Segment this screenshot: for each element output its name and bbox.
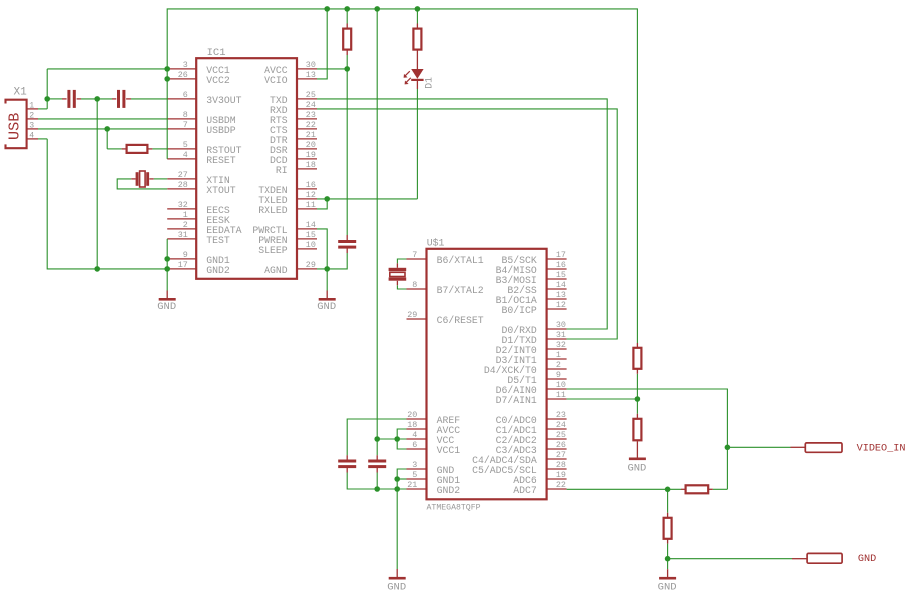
wire X1 pin1 stub link bbox=[38, 108, 47, 110]
svg-text:3: 3 bbox=[183, 60, 188, 70]
svg-text:31: 31 bbox=[178, 230, 188, 240]
wire GND net to pad bbox=[668, 558, 792, 560]
svg-text:3V3OUT: 3V3OUT bbox=[206, 95, 241, 106]
svg-text:9: 9 bbox=[183, 250, 188, 260]
wire TXLED row to LED column bbox=[317, 198, 417, 200]
capacitor C below IC1 (AGND decoupling) bbox=[338, 240, 356, 243]
wire VCC1 row bbox=[47, 68, 167, 70]
svg-text:19: 19 bbox=[556, 470, 566, 480]
svg-text:GND: GND bbox=[157, 301, 176, 313]
U$1 right pins with numbers and names bbox=[472, 250, 566, 496]
svg-text:11: 11 bbox=[556, 390, 566, 400]
wire VCC row bbox=[377, 438, 406, 440]
ground symbol right divider bbox=[629, 458, 646, 461]
svg-text:29: 29 bbox=[407, 310, 417, 320]
svg-text:B7/XTAL2: B7/XTAL2 bbox=[437, 285, 484, 296]
svg-text:ATMEGA8TQFP: ATMEGA8TQFP bbox=[427, 504, 481, 513]
svg-text:9: 9 bbox=[556, 370, 561, 380]
IC chip IC1 FT232 body bbox=[196, 58, 297, 279]
svg-text:1: 1 bbox=[183, 210, 188, 220]
ground symbol below IC1 left bbox=[159, 298, 176, 301]
wire TEST row down to ground bbox=[166, 239, 168, 291]
svg-text:B0/ICP: B0/ICP bbox=[502, 305, 537, 316]
LED D1 bbox=[404, 69, 424, 89]
svg-text:GND2: GND2 bbox=[206, 265, 230, 276]
svg-text:26: 26 bbox=[556, 440, 566, 450]
svg-text:20: 20 bbox=[306, 140, 316, 150]
wire RSTOUT row with series resistor bbox=[107, 148, 121, 150]
pad label GND bbox=[807, 553, 842, 563]
svg-text:23: 23 bbox=[556, 410, 566, 420]
svg-text:14: 14 bbox=[306, 220, 316, 230]
IC1 right pins with numbers and names bbox=[252, 60, 317, 276]
svg-text:IC1: IC1 bbox=[207, 47, 226, 59]
wire RXLED link to TXLED bbox=[317, 199, 327, 209]
wire USBDP row from X1 pin3 bbox=[38, 128, 167, 130]
svg-text:GND: GND bbox=[317, 301, 336, 313]
lead to ground below U$1 bbox=[396, 569, 398, 577]
svg-text:4: 4 bbox=[412, 430, 417, 440]
lead to bottom ground bbox=[667, 569, 669, 577]
wire top VCC rail from IC1 RESET column to right resistor column bbox=[167, 9, 637, 343]
wire vertical USBDP junction to RSTOUT row bbox=[106, 129, 108, 149]
ground symbol below IC1 right bbox=[319, 298, 336, 301]
svg-text:D7/AIN1: D7/AIN1 bbox=[496, 395, 537, 406]
svg-text:24: 24 bbox=[556, 420, 566, 430]
svg-text:U$1: U$1 bbox=[427, 237, 445, 248]
svg-text:25: 25 bbox=[556, 430, 566, 440]
wire vertical from 3V3OUT junction down to GND2 row bbox=[96, 99, 98, 269]
svg-text:RI: RI bbox=[276, 165, 288, 176]
junction divider tap bbox=[635, 396, 641, 402]
wire GND rows down to ground below U$1 bbox=[397, 469, 406, 569]
svg-text:1: 1 bbox=[556, 350, 561, 360]
capacitor C on AREF bbox=[338, 460, 356, 463]
resistor R lower column bbox=[664, 518, 672, 539]
svg-text:19: 19 bbox=[306, 150, 316, 160]
junction VIDEO_IN tap bbox=[725, 445, 731, 451]
resistor R (vertical) above LED bbox=[416, 24, 418, 29]
wire GND2 row bbox=[347, 488, 406, 490]
svg-text:20: 20 bbox=[407, 410, 417, 420]
svg-text:16: 16 bbox=[556, 260, 566, 270]
capacitor C (series) right on 3V3OUT line bbox=[117, 90, 120, 108]
svg-text:30: 30 bbox=[306, 60, 316, 70]
svg-text:GND: GND bbox=[387, 582, 406, 594]
wire X1 pin4 stub link bbox=[38, 138, 47, 140]
junction dots left area bbox=[164, 66, 170, 72]
svg-text:27: 27 bbox=[178, 170, 188, 180]
svg-text:32: 32 bbox=[556, 340, 566, 350]
wire resistor/cap column x347 (AVCC decoupling) bbox=[346, 9, 348, 24]
wire crystal loop at U$1 XTAL bbox=[397, 259, 406, 263]
svg-text:21: 21 bbox=[306, 130, 316, 140]
svg-text:X1: X1 bbox=[14, 87, 28, 99]
svg-text:4: 4 bbox=[29, 132, 34, 141]
wire XTIN crystal loop bbox=[154, 178, 168, 180]
svg-text:VCC2: VCC2 bbox=[206, 75, 230, 86]
capacitor lead segments on 3V3OUT row bbox=[62, 98, 67, 100]
svg-text:5: 5 bbox=[412, 470, 417, 480]
junction dots top rail and IC1 right bbox=[324, 6, 330, 12]
IC chip U$1 ATMEGA8TQFP body bbox=[427, 249, 547, 499]
wire RXD to U$1 D1/TXD bbox=[317, 109, 617, 339]
svg-text:4: 4 bbox=[183, 150, 188, 160]
svg-text:VCIO: VCIO bbox=[264, 75, 288, 86]
svg-text:28: 28 bbox=[178, 180, 188, 190]
svg-text:GND: GND bbox=[627, 463, 646, 475]
svg-text:10: 10 bbox=[306, 240, 316, 250]
junction ADC7 row bbox=[665, 487, 671, 493]
svg-text:12: 12 bbox=[306, 190, 316, 200]
svg-text:13: 13 bbox=[556, 290, 566, 300]
svg-text:USBDP: USBDP bbox=[206, 125, 236, 136]
svg-text:24: 24 bbox=[306, 100, 316, 110]
svg-text:15: 15 bbox=[306, 230, 316, 240]
svg-text:VIDEO_IN: VIDEO_IN bbox=[857, 443, 906, 454]
lead to right ground bbox=[326, 291, 328, 299]
wire USBDM row from X1 pin2 bbox=[38, 118, 167, 120]
svg-text:7: 7 bbox=[183, 120, 188, 130]
svg-text:3: 3 bbox=[29, 122, 34, 131]
svg-text:17: 17 bbox=[556, 250, 566, 260]
svg-text:2: 2 bbox=[183, 220, 188, 230]
junction GND net bbox=[665, 556, 671, 562]
svg-text:12: 12 bbox=[556, 300, 566, 310]
svg-text:29: 29 bbox=[306, 260, 316, 270]
resistor R lower in divider bbox=[633, 419, 641, 441]
wire right resistor divider column x637 bbox=[636, 374, 638, 399]
pad label VIDEO_IN bbox=[805, 443, 842, 452]
wire AREF loop with shunt cap bbox=[347, 419, 406, 455]
ground symbol below U$1 bbox=[389, 577, 406, 580]
svg-text:30: 30 bbox=[556, 320, 566, 330]
svg-text:22: 22 bbox=[306, 120, 316, 130]
svg-text:SLEEP: SLEEP bbox=[258, 245, 288, 256]
svg-text:VCC1: VCC1 bbox=[437, 445, 461, 456]
svg-text:6: 6 bbox=[412, 440, 417, 450]
wire 3V3OUT row with series caps bbox=[47, 98, 62, 100]
svg-text:18: 18 bbox=[407, 420, 417, 430]
svg-text:C6/RESET: C6/RESET bbox=[437, 315, 484, 326]
svg-text:7: 7 bbox=[412, 250, 417, 260]
svg-text:16: 16 bbox=[306, 180, 316, 190]
svg-text:26: 26 bbox=[178, 70, 188, 80]
svg-text:32: 32 bbox=[178, 200, 188, 210]
crystal Q1 on XTIN/XTOUT bbox=[136, 172, 139, 186]
wire AVCC row to resistor column bbox=[317, 68, 347, 70]
wire PWRCTL down to AGND row and ground bbox=[317, 229, 327, 291]
svg-text:GND: GND bbox=[658, 582, 677, 594]
ground symbol bottom right bbox=[659, 577, 676, 580]
svg-text:AGND: AGND bbox=[264, 265, 288, 276]
svg-text:B6/XTAL1: B6/XTAL1 bbox=[437, 255, 484, 266]
wire TXD to U$1 D0/RXD bbox=[317, 99, 607, 329]
svg-text:11: 11 bbox=[306, 200, 316, 210]
wire lower divider column x667 bbox=[667, 489, 669, 513]
svg-text:17: 17 bbox=[178, 260, 188, 270]
svg-text:6: 6 bbox=[183, 90, 188, 100]
capacitor C under U$1 (VCC decoupling) bbox=[368, 460, 386, 463]
svg-text:10: 10 bbox=[556, 380, 566, 390]
svg-text:RESET: RESET bbox=[206, 155, 236, 166]
svg-text:XTOUT: XTOUT bbox=[206, 185, 236, 196]
svg-text:ADC7: ADC7 bbox=[513, 485, 537, 496]
wire AVCC-VCC1 tie bbox=[397, 429, 406, 449]
svg-text:GND: GND bbox=[858, 554, 876, 565]
svg-text:15: 15 bbox=[556, 270, 566, 280]
svg-text:USB: USB bbox=[6, 113, 24, 140]
X1 pin stubs 1-4 bbox=[27, 102, 38, 141]
wire VCIO up to top rail bbox=[317, 9, 327, 79]
USB connector X1 bbox=[6, 100, 27, 149]
svg-text:31: 31 bbox=[556, 330, 566, 340]
svg-text:1: 1 bbox=[29, 102, 34, 111]
lead to left ground bbox=[166, 291, 168, 299]
svg-text:TEST: TEST bbox=[206, 235, 230, 246]
capacitor C (series) left on 3V3OUT line bbox=[67, 90, 70, 108]
wire D7/AIN1 row to divider junction bbox=[567, 398, 638, 400]
svg-text:3: 3 bbox=[412, 460, 417, 470]
wire D6/AIN0 row to VIDEO_IN column bbox=[567, 389, 728, 489]
wire vertical X1 pin1 to VCC1 corner bbox=[46, 69, 48, 109]
svg-text:28: 28 bbox=[556, 460, 566, 470]
svg-text:22: 22 bbox=[556, 480, 566, 490]
svg-text:2: 2 bbox=[556, 360, 561, 370]
wire VIDEO_IN net bbox=[727, 446, 790, 448]
svg-text:18: 18 bbox=[306, 160, 316, 170]
svg-text:RXLED: RXLED bbox=[258, 205, 288, 216]
svg-text:8: 8 bbox=[183, 110, 188, 120]
wire ADC7 row with series resistor bbox=[567, 488, 681, 490]
svg-text:D1: D1 bbox=[423, 77, 434, 89]
resistor R (horizontal) in ADC7 line bbox=[686, 485, 709, 493]
svg-text:25: 25 bbox=[306, 90, 316, 100]
svg-text:23: 23 bbox=[306, 110, 316, 120]
wire long vertical from top rail to U$1 VCC with shunt cap bbox=[376, 9, 378, 439]
svg-text:2: 2 bbox=[29, 112, 34, 121]
svg-text:13: 13 bbox=[306, 70, 316, 80]
resistor R upper in divider bbox=[633, 348, 641, 369]
svg-text:8: 8 bbox=[412, 280, 417, 290]
junction dots around U$1 power pins bbox=[374, 436, 380, 442]
IC1 left pins with numbers and names bbox=[167, 60, 241, 276]
svg-text:14: 14 bbox=[556, 280, 566, 290]
svg-text:5: 5 bbox=[183, 140, 188, 150]
resistor R (horizontal) in RSTOUT line bbox=[127, 145, 148, 153]
resistor R (vertical) top left of rail bbox=[343, 29, 351, 50]
wire X1 pin4 down to GND2 row bbox=[47, 139, 167, 269]
wire GND1 link bbox=[397, 478, 406, 480]
svg-text:21: 21 bbox=[407, 480, 417, 490]
svg-text:GND2: GND2 bbox=[437, 485, 461, 496]
svg-text:27: 27 bbox=[556, 450, 566, 460]
crystal Q2 at U$1 bbox=[389, 268, 407, 271]
U$1 left pins with numbers and names bbox=[407, 250, 484, 496]
